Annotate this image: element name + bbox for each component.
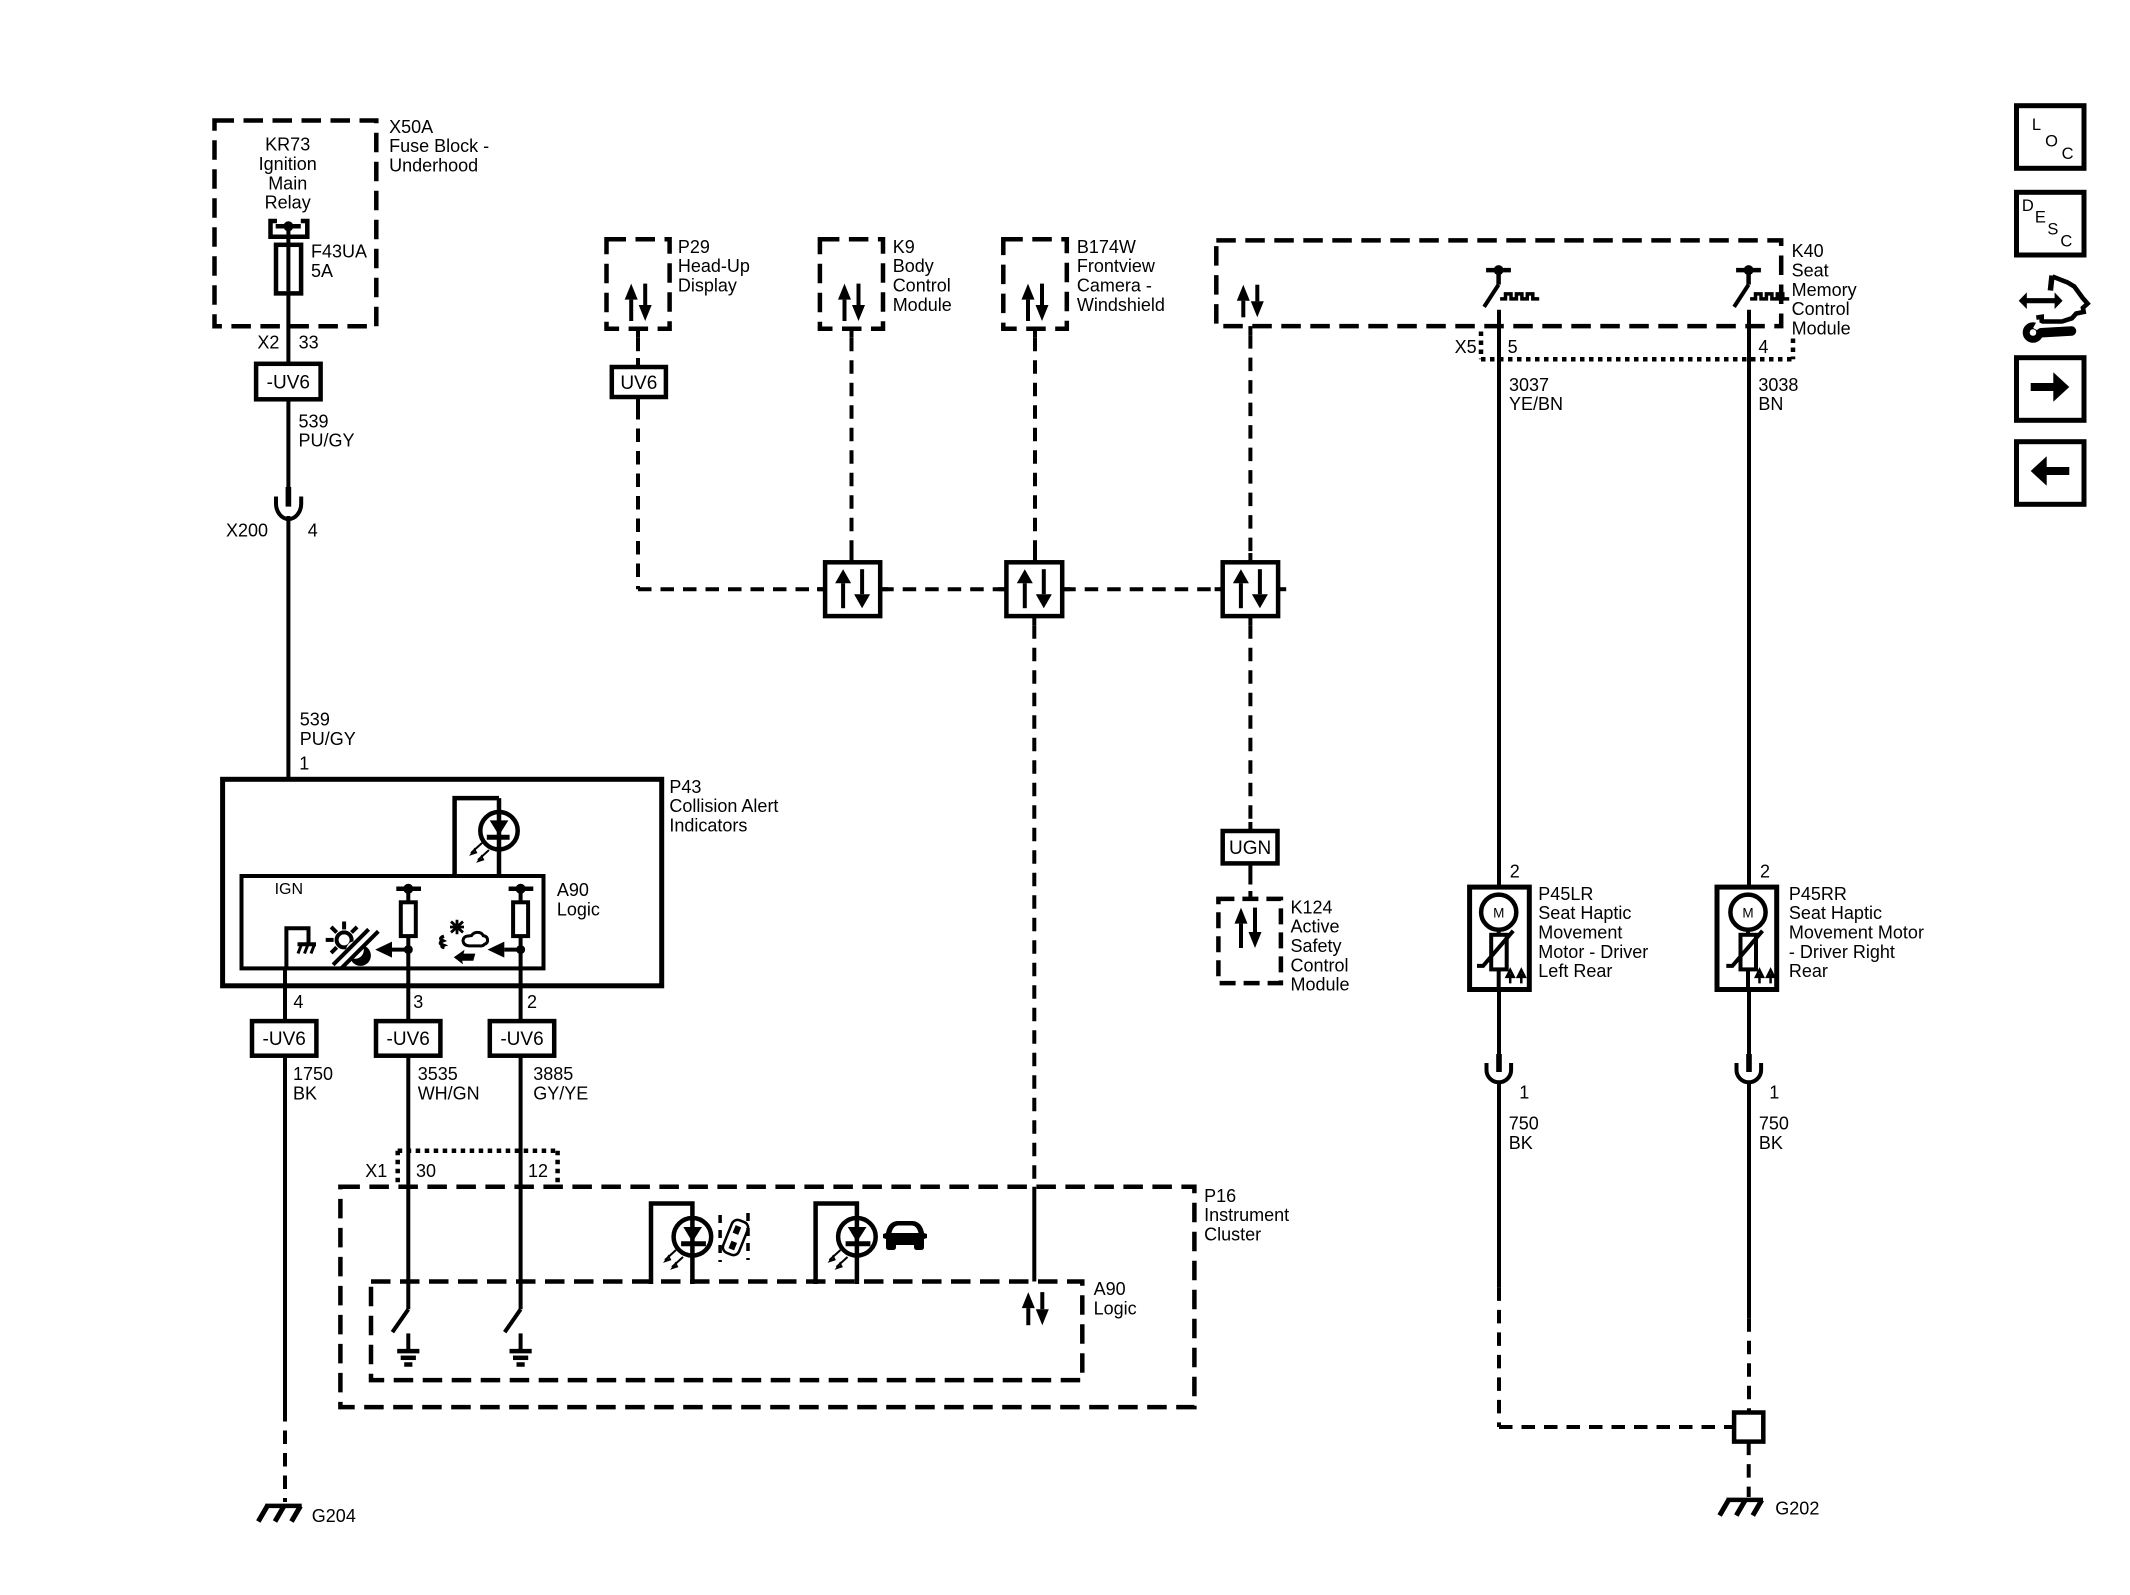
serial data arrows (B174W) xyxy=(1022,284,1049,321)
svg-text:BK: BK xyxy=(293,1084,317,1104)
svg-text:Logic: Logic xyxy=(1094,1299,1137,1319)
svg-text:3037: 3037 xyxy=(1509,375,1549,395)
svg-text:F43UA: F43UA xyxy=(311,242,367,262)
svg-text:Body: Body xyxy=(893,256,934,276)
svg-text:Relay: Relay xyxy=(265,193,311,213)
serial arrows (bus node 1) xyxy=(835,569,870,608)
svg-text:K9: K9 xyxy=(893,237,915,257)
net name box UV6 xyxy=(612,367,666,397)
stub bus node 2 right xyxy=(1062,587,1070,591)
svg-text:WH/GN: WH/GN xyxy=(418,1084,480,1104)
module P29 Head-Up Display (dashed box) xyxy=(607,239,670,328)
module P43 Collision Alert Indicators (solid box) xyxy=(223,779,662,986)
wire bus node 3 to UGN xyxy=(1248,625,1252,822)
wire 3885 GY/YE down into P16 xyxy=(519,1056,523,1310)
svg-text:D: D xyxy=(2022,197,2034,215)
svg-text:A90: A90 xyxy=(1094,1279,1126,1299)
net name box -UV6 (pin 3) xyxy=(376,1021,440,1056)
svg-text:UV6: UV6 xyxy=(620,373,657,394)
svg-text:Movement: Movement xyxy=(1538,923,1622,943)
svg-text:1: 1 xyxy=(299,754,309,774)
svg-text:M: M xyxy=(1493,906,1504,921)
LED indicator vehicle ahead (P16) xyxy=(816,1204,876,1285)
serial data bus segment 1 xyxy=(638,587,825,591)
logic block A90 (in P16) xyxy=(371,1282,1082,1381)
stub K9 bottom xyxy=(850,329,854,338)
svg-text:X200: X200 xyxy=(226,521,268,541)
stub bus node 2 bottom xyxy=(1032,616,1036,625)
svg-text:Rear: Rear xyxy=(1789,961,1828,981)
svg-text:4: 4 xyxy=(308,521,318,541)
stub bus node 2 left xyxy=(998,587,1006,591)
wire 539 PU/GY upper xyxy=(286,399,290,488)
svg-text:Seat Haptic: Seat Haptic xyxy=(1789,903,1882,923)
svg-text:P45LR: P45LR xyxy=(1538,884,1593,904)
svg-text:B174W: B174W xyxy=(1077,237,1136,257)
driver output 1 (A90 P43, pin 3) xyxy=(375,884,421,968)
svg-text:Main: Main xyxy=(268,173,307,193)
connector X1 (dotted strip) xyxy=(398,1151,558,1187)
net name box UGN xyxy=(1223,831,1278,863)
serial data bus segment 3 xyxy=(1062,587,1223,591)
wire 3038 BN xyxy=(1747,310,1751,887)
wire P45RR pin 1 xyxy=(1747,990,1751,1055)
svg-text:3885: 3885 xyxy=(533,1064,573,1084)
svg-text:BK: BK xyxy=(1509,1133,1533,1153)
svg-text:Control: Control xyxy=(893,276,951,296)
svg-text:Module: Module xyxy=(893,295,952,315)
svg-text:E: E xyxy=(2035,209,2046,227)
wire serial data into A90 (P16) xyxy=(1032,1187,1036,1282)
serial arrows (bus node 3) xyxy=(1233,569,1268,608)
svg-text:K124: K124 xyxy=(1291,897,1333,917)
svg-text:G204: G204 xyxy=(312,1506,356,1526)
svg-text:4: 4 xyxy=(1758,337,1768,357)
ground G202 xyxy=(1720,1500,1763,1516)
module P16 Instrument Cluster (dashed box) xyxy=(340,1187,1194,1407)
svg-text:1: 1 xyxy=(1769,1083,1779,1103)
svg-text:Ignition: Ignition xyxy=(259,154,317,174)
driver output right (K40, pin 4) xyxy=(1734,265,1789,307)
svg-text:Fuse Block -: Fuse Block - xyxy=(389,136,489,156)
stub UV6 top xyxy=(636,358,640,367)
svg-text:5A: 5A xyxy=(311,261,333,281)
svg-text:IGN: IGN xyxy=(275,881,303,898)
svg-text:33: 33 xyxy=(299,333,319,353)
svg-text:Seat: Seat xyxy=(1792,260,1829,280)
svg-text:1750: 1750 xyxy=(293,1064,333,1084)
svg-text:Motor - Driver: Motor - Driver xyxy=(1538,942,1648,962)
inline connector (P45RR pin 1) xyxy=(1737,1054,1762,1082)
splice node (750 BK) xyxy=(1734,1413,1763,1442)
serial data bus segment 2 xyxy=(880,587,1006,591)
wire pin 2 to -UV6 xyxy=(519,968,523,1021)
svg-text:P45RR: P45RR xyxy=(1789,884,1847,904)
svg-text:Memory: Memory xyxy=(1792,280,1857,300)
svg-text:L: L xyxy=(2032,116,2041,134)
wire splice to G202 xyxy=(1747,1442,1751,1497)
svg-text:2: 2 xyxy=(527,992,537,1012)
svg-text:-UV6: -UV6 xyxy=(500,1029,543,1050)
svg-text:A90: A90 xyxy=(557,880,589,900)
svg-text:539: 539 xyxy=(299,411,329,431)
wire fuse to -UV6 net box xyxy=(286,293,290,363)
motor P45RR Seat Haptic Movement Motor - Driver Right Rear xyxy=(1717,887,1777,989)
svg-text:X2: X2 xyxy=(257,333,279,353)
svg-text:C: C xyxy=(2060,233,2072,251)
icon forward collision alert xyxy=(440,920,487,965)
switch to ground (pin 30) xyxy=(392,1309,419,1364)
wire P45LR pin 1 xyxy=(1497,990,1501,1055)
svg-text:3: 3 xyxy=(413,992,423,1012)
module K9 Body Control Module (dashed box) xyxy=(820,239,883,328)
net name box -UV6 (pin 33) xyxy=(256,364,321,400)
icon button next (right arrow) xyxy=(2017,358,2085,421)
stub K124 top xyxy=(1248,891,1252,899)
net name box -UV6 (pin 4) xyxy=(252,1021,316,1056)
icon button LOC xyxy=(2017,106,2085,169)
serial data arrows (K9) xyxy=(838,284,865,321)
svg-text:UGN: UGN xyxy=(1229,838,1271,859)
serial data arrows (K40) xyxy=(1237,285,1264,318)
stub bus node 3 right xyxy=(1278,587,1286,591)
svg-text:GY/YE: GY/YE xyxy=(533,1084,588,1104)
wire 750 BK left dashed xyxy=(1497,1287,1501,1427)
svg-text:Movement Motor: Movement Motor xyxy=(1789,923,1924,943)
svg-text:X50A: X50A xyxy=(389,117,433,137)
svg-text:M: M xyxy=(1742,906,1753,921)
fuse F43UA 5A xyxy=(276,245,301,294)
switch to ground (pin 12) xyxy=(505,1309,532,1364)
wire K40 to bus node 3 xyxy=(1248,335,1252,553)
icon day/night dimming xyxy=(326,922,379,969)
svg-text:X5: X5 xyxy=(1455,337,1477,357)
driver output left (K40, pin 5) xyxy=(1484,265,1539,307)
wire bus node 2 to P16 xyxy=(1032,625,1036,1187)
svg-text:P29: P29 xyxy=(678,237,710,257)
svg-text:KR73: KR73 xyxy=(265,135,310,155)
svg-text:P43: P43 xyxy=(669,777,701,797)
svg-text:Active: Active xyxy=(1291,917,1340,937)
svg-text:Display: Display xyxy=(678,276,737,296)
svg-text:Windshield: Windshield xyxy=(1077,295,1165,315)
svg-text:5: 5 xyxy=(1508,337,1518,357)
svg-text:Module: Module xyxy=(1291,975,1350,995)
motor P45LR Seat Haptic Movement Motor - Driver Left Rear xyxy=(1470,887,1530,989)
svg-text:Seat Haptic: Seat Haptic xyxy=(1538,903,1631,923)
stub bus node 1 right xyxy=(880,587,888,591)
svg-text:Left Rear: Left Rear xyxy=(1538,961,1612,981)
wire relay to fuse xyxy=(286,226,290,247)
internal ground (A90 P43) xyxy=(286,928,316,968)
stub into bus node 1 top xyxy=(850,553,854,562)
svg-text:-UV6: -UV6 xyxy=(267,372,310,393)
stub P29 bottom xyxy=(636,329,640,338)
svg-text:Control: Control xyxy=(1291,955,1349,975)
wire 750 BK right dashed xyxy=(1747,1318,1751,1412)
logic block A90 (in P43) xyxy=(242,876,544,968)
inline connector (P45LR pin 1) xyxy=(1487,1054,1512,1082)
driver output 2 (A90 P43, pin 2) xyxy=(488,884,534,968)
svg-text:Indicators: Indicators xyxy=(669,816,747,836)
wire 539 PU/GY lower xyxy=(286,516,290,779)
wire K9 to bus node xyxy=(850,338,854,553)
svg-text:2: 2 xyxy=(1760,861,1770,881)
stub UV6 bottom xyxy=(636,397,640,406)
net name box -UV6 (pin 2) xyxy=(490,1021,554,1056)
svg-text:S: S xyxy=(2047,220,2058,238)
svg-text:- Driver Right: - Driver Right xyxy=(1789,942,1895,962)
svg-text:750: 750 xyxy=(1509,1114,1539,1134)
svg-text:539: 539 xyxy=(300,710,330,730)
wire 1750 BK dashed part xyxy=(283,1408,287,1502)
svg-text:Instrument: Instrument xyxy=(1204,1205,1289,1225)
svg-text:K40: K40 xyxy=(1792,241,1824,261)
stub UGN top xyxy=(1248,822,1252,831)
stub bus node 1 left xyxy=(817,587,825,591)
svg-text:O: O xyxy=(2045,132,2058,150)
bus node 1 (solid box) xyxy=(825,562,880,616)
svg-text:Control: Control xyxy=(1792,299,1850,319)
svg-text:Module: Module xyxy=(1792,318,1851,338)
svg-text:PU/GY: PU/GY xyxy=(299,431,355,451)
wire pin 4 to -UV6 xyxy=(283,968,287,1021)
serial data arrows (A90 P16) xyxy=(1022,1292,1049,1325)
wire UGN to K124 xyxy=(1248,871,1252,891)
module B174W Frontview Camera (dashed box) xyxy=(1003,239,1067,328)
wire 750 BK right solid xyxy=(1747,1081,1751,1318)
svg-text:4: 4 xyxy=(293,992,303,1012)
wire inside fuse xyxy=(286,247,290,292)
stub bus node 3 left xyxy=(1215,587,1223,591)
wire 3535 WH/GN down into P16 xyxy=(406,1056,410,1310)
stub bus node 3 bottom xyxy=(1248,616,1252,625)
svg-text:X1: X1 xyxy=(365,1161,387,1181)
serial arrows (bus node 2) xyxy=(1017,569,1052,608)
serial data arrows (K124) xyxy=(1235,908,1262,948)
wire 1750 BK solid part xyxy=(283,1056,287,1408)
svg-text:Logic: Logic xyxy=(557,900,600,920)
serial data arrows (P29) xyxy=(625,284,652,321)
icon button previous (left arrow) xyxy=(2017,442,2085,505)
svg-text:G202: G202 xyxy=(1775,1499,1819,1519)
wire UV6 to serial bus xyxy=(636,406,640,589)
svg-text:-UV6: -UV6 xyxy=(263,1029,306,1050)
inline connector X200 pin 4 xyxy=(276,487,301,519)
stub K40 serial bottom xyxy=(1248,326,1252,335)
module K124 Active Safety Control Module (dashed box) xyxy=(1218,899,1281,983)
svg-text:Camera -: Camera - xyxy=(1077,276,1152,296)
relay KR73 contact symbol xyxy=(271,221,308,237)
svg-text:C: C xyxy=(2062,145,2074,163)
svg-text:YE/BN: YE/BN xyxy=(1509,394,1563,414)
fuse block X50A - Underhood (dashed box) xyxy=(215,121,377,327)
icon vehicle ahead (car silhouette) xyxy=(883,1221,927,1250)
svg-text:Underhood: Underhood xyxy=(389,156,478,176)
svg-text:Collision Alert: Collision Alert xyxy=(669,796,778,816)
connector X5 (dotted strip) xyxy=(1481,332,1793,360)
stub into bus node 3 top xyxy=(1248,553,1252,562)
bus node 3 (solid box) xyxy=(1223,562,1278,616)
icon button DESC xyxy=(2017,192,2085,255)
LED indicator lane departure (P16) xyxy=(651,1204,711,1285)
LED indicator (P43 collision alert lamp) xyxy=(455,798,518,876)
svg-text:750: 750 xyxy=(1759,1114,1789,1134)
svg-text:P16: P16 xyxy=(1204,1186,1236,1206)
stub B174W bottom xyxy=(1033,329,1037,338)
bus node 2 (solid box) xyxy=(1006,562,1062,616)
svg-text:-UV6: -UV6 xyxy=(387,1029,430,1050)
wire 750 BK horizontal dashed xyxy=(1499,1425,1734,1429)
svg-text:2: 2 xyxy=(1510,861,1520,881)
svg-text:3038: 3038 xyxy=(1758,375,1798,395)
svg-text:1: 1 xyxy=(1519,1083,1529,1103)
stub into bus node 2 top xyxy=(1033,553,1037,562)
module K40 Seat Memory Control Module (dashed box) xyxy=(1216,240,1781,326)
svg-text:BN: BN xyxy=(1758,394,1783,414)
svg-text:30: 30 xyxy=(416,1161,436,1181)
wire 3037 YE/BN xyxy=(1497,310,1501,887)
svg-text:Head-Up: Head-Up xyxy=(678,256,750,276)
svg-text:PU/GY: PU/GY xyxy=(300,729,356,749)
stub UGN bottom xyxy=(1248,863,1252,871)
icon component location (arrow + outline + wrench) xyxy=(2019,276,2088,340)
icon lane departure vehicle xyxy=(720,1213,750,1262)
ground G204 xyxy=(258,1506,301,1522)
svg-text:Frontview: Frontview xyxy=(1077,256,1156,276)
wire B174W to bus node xyxy=(1033,338,1037,553)
wire 750 BK left solid xyxy=(1497,1081,1501,1287)
wire pin 3 to -UV6 xyxy=(406,968,410,1021)
svg-text:Cluster: Cluster xyxy=(1204,1225,1261,1245)
svg-text:12: 12 xyxy=(528,1161,548,1181)
svg-text:3535: 3535 xyxy=(418,1064,458,1084)
svg-text:BK: BK xyxy=(1759,1133,1783,1153)
svg-text:Safety: Safety xyxy=(1291,936,1342,956)
wire P29 to UV6 net box xyxy=(636,338,640,358)
